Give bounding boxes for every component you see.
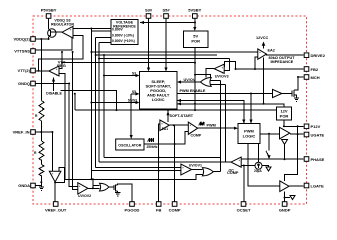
svg-text:COMP: COMP: [227, 171, 239, 175]
svg-text:+: +: [189, 123, 191, 127]
svg-text:S5#: S5#: [162, 8, 170, 13]
svg-text:COMP: COMP: [169, 208, 181, 213]
svg-text:PGOOD: PGOOD: [125, 208, 140, 213]
svg-text:P12V: P12V: [311, 124, 321, 129]
svg-text:5VSBY: 5VSBY: [188, 8, 201, 13]
svg-text:P5VSBY: P5VSBY: [41, 8, 57, 13]
svg-text:-: -: [162, 128, 163, 132]
svg-text:EA1: EA1: [162, 127, 168, 131]
svg-text:-: -: [222, 72, 223, 76]
svg-text:-: -: [58, 172, 59, 176]
svg-text:+: +: [259, 50, 261, 54]
svg-text:S5: S5: [132, 90, 136, 94]
svg-text:VTT(2): VTT(2): [18, 68, 31, 73]
svg-text:+: +: [238, 158, 240, 162]
svg-text:S5/S3: S5/S3: [128, 99, 137, 103]
svg-text:+: +: [182, 165, 184, 169]
svg-text:SOFT-START: SOFT-START: [170, 114, 194, 118]
svg-text:LOGIC: LOGIC: [243, 134, 256, 139]
svg-text:+: +: [52, 172, 54, 176]
svg-text:LGATE: LGATE: [311, 183, 325, 188]
svg-text:COMP: COMP: [191, 133, 202, 137]
svg-text:+: +: [161, 122, 163, 126]
svg-text:MCH: MCH: [311, 75, 320, 80]
svg-text:0.800V: 0.800V: [112, 28, 123, 32]
svg-text:OSCILLATOR: OSCILLATOR: [118, 143, 141, 147]
svg-text:VDDQ(2): VDDQ(2): [14, 36, 31, 41]
svg-text:-: -: [79, 191, 80, 195]
svg-text:REGULATOR: REGULATOR: [51, 22, 74, 26]
svg-text:FB2: FB2: [311, 67, 319, 72]
svg-text:VREF_IN: VREF_IN: [13, 129, 30, 134]
svg-text:EA2: EA2: [268, 48, 275, 52]
svg-text:UV/OV: UV/OV: [184, 78, 196, 82]
svg-text:REG: REG: [57, 63, 66, 68]
svg-text:-: -: [183, 172, 184, 176]
svg-text:0.800V (-10%): 0.800V (-10%): [112, 34, 134, 38]
svg-text:-: -: [70, 35, 71, 39]
svg-text:-: -: [260, 57, 261, 61]
svg-text:POR: POR: [280, 114, 289, 119]
svg-text:+: +: [79, 184, 81, 188]
svg-text:0.800V (+10%): 0.800V (+10%): [112, 39, 135, 43]
svg-text:PWM ENABLE: PWM ENABLE: [180, 89, 206, 93]
svg-text:-: -: [56, 74, 57, 78]
svg-text:-: -: [190, 130, 191, 134]
svg-text:DISABLE: DISABLE: [46, 92, 62, 96]
svg-text:UV/OV2: UV/OV2: [78, 194, 91, 198]
svg-text:FB: FB: [156, 208, 161, 213]
svg-text:DRIVE2: DRIVE2: [311, 53, 326, 58]
svg-text:GNDP: GNDP: [279, 208, 291, 213]
svg-text:GNDA: GNDA: [18, 183, 30, 188]
svg-text:VTTSNS: VTTSNS: [14, 48, 30, 53]
svg-text:UV/OV1: UV/OV1: [189, 164, 202, 168]
svg-text:+: +: [56, 67, 58, 71]
svg-text:LOGIC: LOGIC: [152, 97, 165, 102]
svg-text:PWM: PWM: [207, 123, 216, 127]
svg-text:S3: S3: [132, 72, 136, 76]
svg-text:OCSET: OCSET: [237, 208, 251, 213]
svg-text:IMPEDANCE: IMPEDANCE: [271, 60, 294, 64]
svg-text:250kHz: 250kHz: [147, 145, 158, 149]
svg-text:+: +: [221, 65, 223, 69]
svg-text:GNDQ: GNDQ: [18, 81, 30, 86]
svg-text:POR: POR: [191, 39, 200, 44]
svg-text:12VCC: 12VCC: [256, 36, 268, 40]
svg-text:-: -: [239, 164, 240, 168]
svg-text:VREF_OUT: VREF_OUT: [45, 208, 67, 213]
svg-text:PHASE: PHASE: [311, 157, 325, 162]
svg-text:UGATE: UGATE: [311, 132, 325, 137]
svg-text:20µA: 20µA: [254, 169, 262, 173]
svg-text:+: +: [70, 27, 72, 31]
svg-text:S3#: S3#: [145, 8, 153, 13]
